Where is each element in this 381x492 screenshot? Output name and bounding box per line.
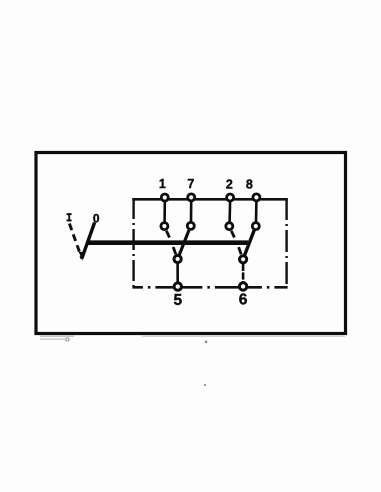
switch body S1 (dash-dot enclosure) xyxy=(132,198,287,287)
wiper node pole 2 xyxy=(240,256,247,263)
svg-text:8: 8 xyxy=(246,177,253,191)
terminal 2 xyxy=(227,194,234,201)
terminal 5 xyxy=(174,283,181,290)
terminal 7 xyxy=(188,194,195,201)
terminal 8 xyxy=(253,194,260,201)
wire stem terminal 8 to contact xyxy=(255,202,258,222)
actuator bar xyxy=(87,240,249,245)
open contact gap wire (contact 1 to wiper, broken) xyxy=(166,231,175,254)
label I xyxy=(67,213,72,221)
svg-text:0: 0 xyxy=(93,211,100,225)
terminal 1 xyxy=(161,194,168,201)
wiper node pole 1 xyxy=(174,255,181,262)
lever solid arm (position 0) xyxy=(79,223,95,261)
wire stem terminal 1 to contact xyxy=(163,202,166,223)
svg-text:2: 2 xyxy=(226,177,233,191)
fixed contact under terminal 1 xyxy=(161,223,168,230)
closed contact wire (contact 7 to wiper pole 1) xyxy=(179,230,189,254)
open contact gap wire (contact 2 to wiper, broken) xyxy=(231,231,241,255)
svg-text:6: 6 xyxy=(239,292,248,309)
wire stem terminal 2 to contact xyxy=(228,202,231,223)
fixed contact under terminal 8 xyxy=(252,223,259,230)
svg-text:7: 7 xyxy=(187,177,194,191)
wire stem terminal 7 to contact xyxy=(190,202,193,222)
svg-text:1: 1 xyxy=(159,177,166,191)
terminal 6 xyxy=(239,283,246,290)
fixed contact under terminal 2 xyxy=(226,223,233,230)
wire wiper pole 1 to terminal 5 xyxy=(176,264,179,283)
closed contact wire (contact 8 to wiper pole 2) xyxy=(245,230,254,255)
wire wiper pole 2 to terminal 6 xyxy=(242,264,245,282)
lever dashed arm (position I) xyxy=(69,224,81,259)
fixed contact under terminal 7 xyxy=(187,222,194,229)
svg-text:5: 5 xyxy=(173,292,182,309)
